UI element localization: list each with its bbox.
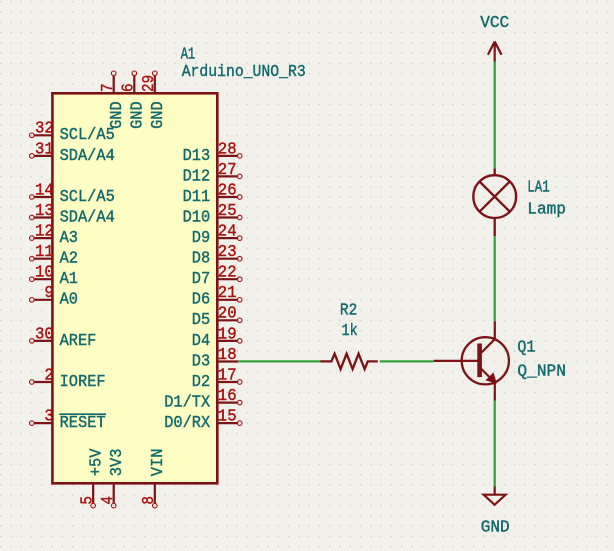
svg-text:Q_NPN: Q_NPN bbox=[517, 362, 566, 381]
power symbol VCC bbox=[488, 42, 502, 62]
pin 21 D6 (right) bbox=[217, 299, 238, 301]
pin 32 SCL/A5 (left) bbox=[34, 134, 52, 136]
svg-text:SDA/A4: SDA/A4 bbox=[60, 147, 115, 166]
svg-text:GND: GND bbox=[129, 101, 148, 129]
svg-text:5: 5 bbox=[78, 496, 97, 505]
svg-text:D3: D3 bbox=[192, 352, 210, 371]
pin 5 +5V (bottom) bbox=[92, 483, 94, 503]
svg-text:21: 21 bbox=[218, 284, 237, 303]
pin 30 AREF (left) bbox=[34, 340, 52, 342]
pin 10 A1 (left) bbox=[34, 278, 52, 280]
svg-text:A2: A2 bbox=[60, 250, 78, 269]
svg-text:23: 23 bbox=[218, 243, 237, 262]
pin 12 A3 (left) bbox=[34, 237, 52, 239]
wire lamp to Q1 collector bbox=[494, 236, 496, 321]
svg-text:17: 17 bbox=[218, 366, 237, 385]
svg-text:7: 7 bbox=[99, 83, 118, 92]
svg-text:VIN: VIN bbox=[149, 449, 168, 477]
pin 4 3V3 (bottom) bbox=[113, 483, 115, 503]
svg-text:19: 19 bbox=[218, 325, 237, 344]
svg-text:D0/RX: D0/RX bbox=[164, 414, 210, 433]
svg-text:D1/TX: D1/TX bbox=[164, 394, 210, 413]
svg-text:15: 15 bbox=[218, 408, 237, 427]
svg-text:3V3: 3V3 bbox=[108, 449, 127, 477]
svg-text:2: 2 bbox=[44, 366, 53, 385]
pin 14 SCL/A5 (left) bbox=[34, 196, 52, 198]
svg-text:Arduino_UNO_R3: Arduino_UNO_R3 bbox=[182, 63, 306, 82]
svg-text:D8: D8 bbox=[192, 250, 210, 269]
pin 9 A0 (left) bbox=[34, 299, 52, 301]
svg-text:SDA/A4: SDA/A4 bbox=[60, 208, 115, 227]
pin 13 SDA/A4 (left) bbox=[34, 216, 52, 218]
svg-text:13: 13 bbox=[35, 202, 54, 221]
wire resistor to Q1 base bbox=[380, 360, 434, 362]
pin 23 D8 (right) bbox=[217, 258, 238, 260]
wire Q1 emitter to GND bbox=[494, 401, 496, 487]
svg-text:24: 24 bbox=[218, 223, 237, 242]
pin 8 VIN (bottom) bbox=[154, 483, 156, 503]
svg-text:6: 6 bbox=[120, 83, 139, 92]
lamp LA1 bbox=[473, 169, 516, 237]
svg-text:D5: D5 bbox=[192, 311, 210, 330]
pin 24 D9 (right) bbox=[217, 237, 238, 239]
svg-text:16: 16 bbox=[218, 387, 237, 406]
pin 19 D4 (right) bbox=[217, 340, 238, 342]
svg-text:30: 30 bbox=[35, 325, 54, 344]
svg-text:AREF: AREF bbox=[60, 332, 97, 351]
wire VCC to lamp bbox=[494, 62, 496, 169]
svg-text:1k: 1k bbox=[342, 322, 358, 341]
svg-text:D9: D9 bbox=[192, 229, 210, 248]
svg-text:D4: D4 bbox=[192, 332, 210, 351]
svg-text:20: 20 bbox=[218, 305, 237, 324]
pin 20 D5 (right) bbox=[217, 319, 238, 321]
svg-text:29: 29 bbox=[140, 75, 159, 92]
svg-text:+5V: +5V bbox=[87, 449, 106, 477]
svg-text:12: 12 bbox=[35, 223, 54, 242]
svg-text:18: 18 bbox=[218, 346, 237, 365]
svg-text:A0: A0 bbox=[60, 291, 78, 310]
pin 27 D12 (right) bbox=[217, 175, 238, 177]
svg-text:SCL/A5: SCL/A5 bbox=[60, 188, 115, 207]
pin 29 GND (top) bbox=[154, 76, 156, 94]
svg-text:GND: GND bbox=[149, 101, 168, 129]
IC A1 Arduino_UNO_R3 body bbox=[52, 93, 217, 483]
svg-text:RESET: RESET bbox=[60, 414, 106, 433]
pin 7 GND (top) bbox=[113, 76, 115, 94]
transistor Q1 bbox=[434, 322, 509, 401]
pin 16 D1/TX (right) bbox=[217, 402, 238, 404]
svg-text:IOREF: IOREF bbox=[60, 373, 106, 392]
svg-text:28: 28 bbox=[218, 140, 237, 159]
svg-text:9: 9 bbox=[44, 284, 53, 303]
svg-text:D10: D10 bbox=[183, 208, 211, 227]
pin 11 A2 (left) bbox=[34, 258, 52, 260]
pin 6 GND (top) bbox=[133, 76, 135, 94]
svg-text:3: 3 bbox=[44, 408, 53, 427]
pin 18 D3 (right) bbox=[217, 360, 238, 362]
pin 3 RESET (left) bbox=[34, 422, 52, 424]
pin 31 SDA/A4 (left) bbox=[34, 155, 52, 157]
svg-text:32: 32 bbox=[35, 120, 54, 139]
svg-text:GND: GND bbox=[108, 101, 127, 129]
svg-text:D12: D12 bbox=[183, 167, 211, 186]
svg-text:D6: D6 bbox=[192, 291, 210, 310]
pin 25 D10 (right) bbox=[217, 216, 238, 218]
svg-text:31: 31 bbox=[35, 140, 54, 159]
svg-text:VCC: VCC bbox=[480, 13, 509, 32]
resistor R2 bbox=[320, 354, 377, 369]
svg-text:14: 14 bbox=[35, 181, 54, 200]
svg-text:LA1: LA1 bbox=[527, 179, 549, 198]
svg-text:GND: GND bbox=[481, 517, 510, 536]
svg-text:11: 11 bbox=[35, 243, 54, 262]
svg-text:10: 10 bbox=[35, 264, 54, 283]
svg-text:A3: A3 bbox=[60, 229, 78, 248]
svg-text:D2: D2 bbox=[192, 373, 210, 392]
pin 22 D7 (right) bbox=[217, 278, 238, 280]
pin 26 D11 (right) bbox=[217, 196, 238, 198]
svg-text:Q1: Q1 bbox=[517, 339, 535, 358]
svg-text:25: 25 bbox=[218, 202, 237, 221]
svg-text:4: 4 bbox=[99, 496, 118, 505]
svg-text:A1: A1 bbox=[181, 45, 196, 64]
svg-text:Lamp: Lamp bbox=[527, 200, 566, 219]
svg-text:D13: D13 bbox=[183, 147, 211, 166]
pin 28 D13 (right) bbox=[217, 155, 238, 157]
pin 2 IOREF (left) bbox=[34, 381, 52, 383]
ground bbox=[484, 487, 506, 505]
svg-text:26: 26 bbox=[218, 181, 237, 200]
svg-text:R2: R2 bbox=[340, 301, 357, 320]
svg-text:D7: D7 bbox=[192, 270, 210, 289]
pin 15 D0/RX (right) bbox=[217, 422, 238, 424]
svg-text:8: 8 bbox=[140, 496, 159, 505]
wire D3 to resistor bbox=[238, 360, 321, 362]
pin 17 D2 (right) bbox=[217, 381, 238, 383]
svg-text:A1: A1 bbox=[60, 270, 78, 289]
svg-text:SCL/A5: SCL/A5 bbox=[60, 126, 115, 145]
svg-text:27: 27 bbox=[218, 161, 237, 180]
svg-text:D11: D11 bbox=[183, 188, 211, 207]
svg-text:22: 22 bbox=[218, 264, 237, 283]
